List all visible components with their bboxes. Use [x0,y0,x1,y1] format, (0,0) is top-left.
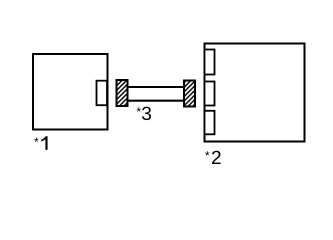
wire harness clamp right (hatched) [184,81,195,107]
connector port on component *1 [97,81,108,106]
connector port B on component *2 [205,82,215,106]
connector port C on component *2 [205,111,215,135]
wire harness clamp left (hatched) [117,80,128,106]
wire harness upper line [128,86,184,88]
connector port A on component *2 [205,50,215,75]
label *1 [34,136,47,150]
wire harness lower line [128,100,184,102]
label *3 [137,107,151,120]
component *1 box [33,54,108,130]
component *2 box [205,44,305,142]
label *2 [205,151,221,164]
